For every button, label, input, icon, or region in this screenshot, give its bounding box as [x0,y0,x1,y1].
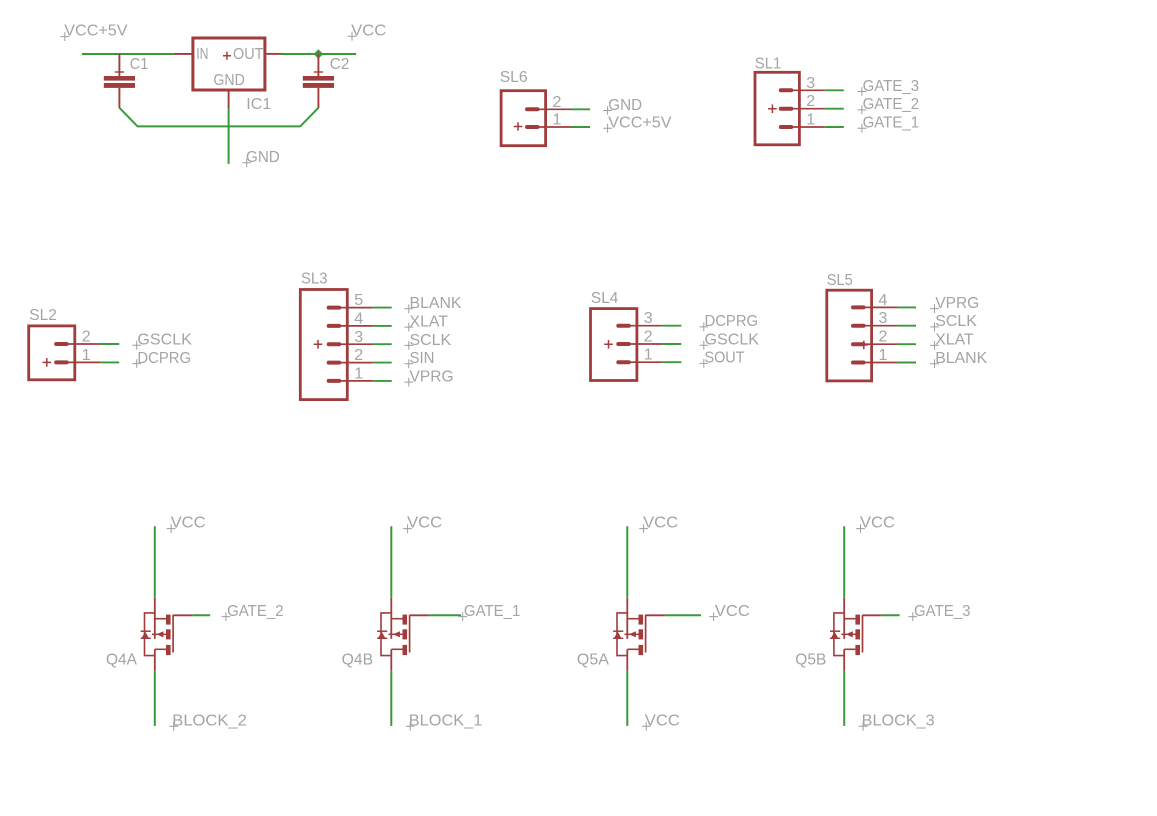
svg-text:VCC: VCC [171,515,206,532]
SL3 pin 2 pad [327,361,342,365]
svg-text:Q5A: Q5A [577,651,609,668]
net label SIN [404,359,413,368]
SL6 polarity mark [514,122,523,131]
voltage regulator IC1 [174,38,282,113]
svg-text:BLANK: BLANK [410,295,462,312]
svg-text:1: 1 [354,365,363,382]
net label VCC [709,603,750,621]
Q5B source lead [843,598,845,639]
svg-text:VCC: VCC [645,713,680,730]
Q4A body branch [145,613,155,656]
svg-text:GND: GND [246,149,280,166]
Q4A source lead [154,598,156,639]
SL3 pin 3 pad [327,342,342,346]
wire SL5.1 to BLANK [897,362,916,364]
svg-text:1: 1 [806,112,815,129]
Q4B source stub [391,618,402,620]
SL3 pin 2 lead [341,362,373,364]
svg-text:SCLK: SCLK [410,332,452,349]
SL3 pin 4 lead [341,325,373,327]
svg-text:5: 5 [354,292,363,309]
svg-text:VCC+5V: VCC+5V [608,115,672,132]
svg-text:GATE_1: GATE_1 [863,115,920,132]
svg-text:SL2: SL2 [29,307,57,324]
svg-text:VCC+5V: VCC+5V [64,23,128,40]
svg-text:2: 2 [82,329,91,346]
wire Q5A drain to VCC [626,671,628,726]
wire Q4B drain to BLOCK_1 [390,671,392,726]
net label XLAT [930,341,939,350]
SL1 pin 1 pad [779,125,794,129]
wire SL6.2 to GND [571,108,590,110]
svg-text:DCPRG: DCPRG [137,350,191,367]
svg-text:Q4A: Q4A [106,651,137,668]
SL5 pin 4 pad [851,305,866,309]
net label GATE_1 [858,124,867,133]
Q5A body branch [617,613,627,656]
net label SCLK [930,323,939,332]
connector SL4 [591,290,760,381]
SL2 body [29,326,75,380]
Q4B gate bar [409,615,411,653]
svg-text:SL1: SL1 [755,55,782,72]
svg-text:OUT: OUT [233,46,264,63]
wire Q4A gate to GATE_2 [192,614,210,616]
net label VPRG [404,378,413,387]
Q4A drain lead [154,649,156,671]
SL1 body [755,72,799,145]
SL1 pin 2 pad [779,107,794,111]
svg-text:1: 1 [82,347,91,364]
transistor Q4A (P-MOSFET) [106,598,192,671]
net label GATE_2 [222,603,284,621]
svg-text:2: 2 [806,93,815,110]
svg-text:SOUT: SOUT [705,350,745,367]
Q4A channel bars [166,615,171,625]
SL2 pin 2 pad [54,342,68,346]
svg-text:1: 1 [644,347,653,364]
svg-text:3: 3 [354,329,363,346]
Q4A drain stub [155,648,166,650]
net label DCPRG [132,359,141,368]
net label VCC [642,713,680,731]
Q4A gate bar [172,615,174,653]
svg-text:2: 2 [644,329,653,346]
supply label VCC+5V [60,23,127,41]
svg-text:SCLK: SCLK [935,313,977,330]
Q4A source stub [155,618,166,620]
net label GATE_3 [858,87,867,96]
connector SL6 [500,69,672,146]
wire IC1.GND down to GND label [228,108,230,164]
SL4 pin 1 pad [616,360,631,364]
svg-text:1: 1 [553,112,562,129]
wire Q4A drain to BLOCK_2 [154,671,156,726]
net label BLANK [930,359,939,368]
connector SL5 [827,272,988,381]
svg-text:VCC: VCC [407,515,442,532]
wire SL2.1 to DCPRG [100,361,119,363]
net label GSCLK [132,341,141,350]
wire SL1.1 to GATE_1 [825,126,844,128]
svg-text:BLOCK_2: BLOCK_2 [172,713,247,730]
SL3 pin 1 lead [341,380,373,382]
SL1 polarity mark [768,104,777,113]
svg-text:IC1: IC1 [246,96,271,113]
SL1 pin 3 lead [793,89,825,91]
net label SOUT [699,359,708,368]
transistor Q5A (P-MOSFET) [577,598,665,671]
capacitor C1 [104,54,149,108]
wire VCC to Q4B source [390,526,392,598]
net label BLANK [404,304,413,313]
supply label VCC (Q4B source) [403,515,442,533]
svg-text:GATE_2: GATE_2 [863,96,920,113]
svg-text:2: 2 [553,94,562,111]
SL2 pin 1 lead [68,361,100,363]
Q4A gate lead [173,614,192,616]
SL4 polarity mark [604,340,613,349]
Q4B body branch [381,613,391,656]
wire SL1.3 to GATE_3 [825,89,844,91]
SL5 body [827,290,872,381]
wire Q5B drain to BLOCK_3 [843,671,845,726]
wire SL3.5 to BLANK [373,307,392,309]
wire VCC to Q5A source [626,526,628,598]
Q4B substrate arrow [389,633,403,635]
svg-text:SL3: SL3 [301,271,328,288]
supply label VCC (Q5B source) [856,515,895,533]
wire VCC to Q5B source [843,526,845,598]
net label DCPRG [699,323,708,332]
svg-text:GATE_3: GATE_3 [863,78,920,95]
SL3 pin 5 lead [341,307,373,309]
svg-text:3: 3 [879,310,888,327]
svg-text:IN: IN [196,46,208,63]
net label BLOCK_1 [406,713,483,731]
SL3 polarity mark [314,340,323,349]
net label SCLK [404,341,413,350]
capacitor C2 [303,54,350,108]
Q5B drain stub [844,648,855,650]
wire SL4.2 to GSCLK [662,343,681,345]
wire SL5.4 to VPRG [897,306,916,308]
Q4B gate lead [410,614,429,616]
Q4B drain lead [390,649,392,671]
SL5 pin 3 lead [865,325,897,327]
net label XLAT [404,323,413,332]
net label VPRG [930,304,939,313]
SL5 pin 4 lead [865,306,897,308]
connector SL1 [755,55,919,145]
wire SL1.2 to GATE_2 [825,108,844,110]
svg-text:GATE_2: GATE_2 [227,603,284,620]
net label GATE_3 [908,603,970,621]
wire IC1.OUT to VCC [282,53,357,55]
Q5A source lead [626,598,628,639]
Q5B gate bar [862,615,864,653]
wire VCC+5V to IC1.IN [82,53,174,55]
SL4 body [591,309,637,381]
Q5A drain stub [627,648,638,650]
wire SL2.2 to GSCLK [100,343,119,345]
svg-text:Q4B: Q4B [342,651,374,668]
SL5 pin 2 pad [851,342,866,346]
net label GATE_1 [458,603,520,621]
svg-text:GSCLK: GSCLK [137,332,192,349]
wire SL4.1 to SOUT [662,361,681,363]
wire Q5B gate to GATE_3 [882,614,900,616]
Q5A drain lead [626,649,628,671]
svg-text:VPRG: VPRG [410,368,454,385]
svg-text:3: 3 [806,75,815,92]
svg-text:VCC: VCC [351,22,386,39]
connector SL3 [300,271,462,400]
Q5A gate lead [646,614,665,616]
connector SL2 [29,307,193,380]
svg-text:XLAT: XLAT [935,332,974,349]
svg-text:GSCLK: GSCLK [705,332,760,349]
wire SL3.1 to VPRG [373,380,392,382]
net label GATE_2 [858,106,867,115]
Q4B channel bars [403,615,408,625]
net label BLOCK_2 [169,713,247,731]
wire VCC to Q4A source [154,526,156,598]
Q5B body branch [834,613,844,656]
svg-text:Q5B: Q5B [795,651,826,668]
wire SL5.3 to SCLK [897,325,916,327]
SL5 pin 3 pad [851,324,866,328]
wire Q5A gate to VCC [665,614,701,616]
SL3 pin 1 pad [327,379,342,383]
svg-text:GATE_1: GATE_1 [464,603,521,620]
supply label VCC [348,22,387,40]
svg-text:C2: C2 [330,56,350,73]
SL6 pin 2 lead [539,108,571,110]
svg-text:VCC: VCC [715,603,750,620]
svg-text:BLOCK_1: BLOCK_1 [409,713,483,730]
net label GND [603,106,612,115]
Q5A source stub [627,618,638,620]
Q5B drain lead [843,649,845,671]
svg-text:SL4: SL4 [591,290,619,307]
svg-text:BLOCK_3: BLOCK_3 [862,713,935,730]
SL3 body [300,290,347,400]
SL1 pin 3 pad [779,88,794,92]
SL5 pin 1 pad [851,361,866,365]
supply label VCC (Q5A source) [639,515,678,533]
ground bus wire [119,108,318,127]
net label BLOCK_3 [859,713,935,731]
junction node at C2 tap [314,49,324,59]
SL4 pin 3 pad [616,324,631,328]
Q5A gate bar [645,615,647,653]
svg-text:VCC: VCC [860,515,895,532]
svg-text:4: 4 [354,310,363,327]
svg-text:GND: GND [608,97,642,114]
SL4 pin 3 lead [630,325,662,327]
transistor Q4B (P-MOSFET) [342,598,429,671]
svg-text:VPRG: VPRG [935,295,979,312]
Q5A channel bars [639,615,644,625]
svg-text:C1: C1 [130,56,149,73]
net label VCC+5V [603,124,612,133]
SL5 polarity mark [860,341,869,350]
Q5B source stub [844,618,855,620]
wire SL6.1 to VCC+5V [571,126,590,128]
svg-text:GATE_3: GATE_3 [914,603,971,620]
SL5 pin 2 lead [865,343,897,345]
SL4 pin 2 lead [630,343,662,345]
svg-text:SIN: SIN [410,350,435,367]
ground label GND [242,149,279,167]
svg-text:DCPRG: DCPRG [705,313,759,330]
SL2 pin 1 pad [54,360,68,364]
svg-text:4: 4 [879,292,888,309]
SL6 body [501,91,545,146]
svg-text:2: 2 [354,347,363,364]
SL2 pin 2 lead [68,343,100,345]
net label GSCLK [699,341,708,350]
svg-text:SL5: SL5 [827,272,853,289]
Q4A substrate arrow [152,633,166,635]
SL3 pin 4 pad [327,324,342,328]
svg-text:XLAT: XLAT [410,313,449,330]
svg-text:GND: GND [213,72,244,89]
Q5A substrate arrow [625,633,639,635]
wire SL4.3 to DCPRG [662,325,681,327]
SL6 pin 1 lead [539,126,571,128]
SL1 pin 1 lead [793,126,825,128]
Q5B substrate arrow [841,633,855,635]
wire SL3.4 to XLAT [373,325,392,327]
wire SL5.2 to XLAT [897,343,916,345]
SL1 pin 2 lead [793,108,825,110]
SL6 pin 1 pad [525,125,540,129]
SL6 pin 2 pad [525,107,540,111]
Q5B body diode [830,630,840,632]
SL5 pin 1 lead [865,362,897,364]
Q4B body diode [377,630,387,632]
svg-text:BLANK: BLANK [935,350,987,367]
svg-text:3: 3 [644,310,653,327]
transistor Q5B (P-MOSFET) [795,598,881,671]
Q4B drain stub [391,648,402,650]
svg-text:1: 1 [879,347,888,364]
SL4 pin 2 pad [616,342,631,346]
supply label VCC (Q4A source) [167,515,206,533]
SL3 pin 3 lead [341,343,373,345]
Q5B channel bars [855,615,860,625]
svg-text:VCC: VCC [643,515,678,532]
Q4B source lead [390,598,392,639]
SL3 pin 5 pad [327,306,342,310]
Q5B gate lead [863,614,882,616]
Q4A body diode [141,630,151,632]
wire SL3.2 to SIN [373,362,392,364]
wire Q4B gate to GATE_1 [429,614,461,616]
Q5A body diode [613,630,623,632]
SL4 pin 1 lead [630,361,662,363]
svg-text:SL6: SL6 [500,69,528,86]
SL2 polarity mark [43,358,52,367]
svg-text:2: 2 [879,329,888,346]
wire SL3.3 to SCLK [373,343,392,345]
